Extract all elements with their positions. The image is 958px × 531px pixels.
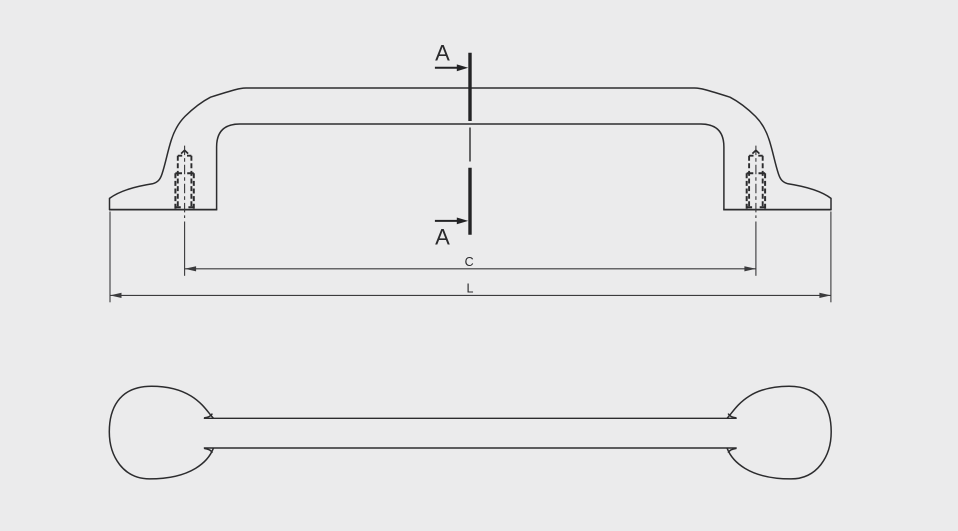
L extension line left xyxy=(109,212,111,303)
svg-text:A: A xyxy=(435,41,450,66)
screw thread hole hidden lines xyxy=(747,173,765,208)
svg-text:A: A xyxy=(435,224,450,249)
handle outer profile right xyxy=(695,88,832,210)
svg-text:C: C xyxy=(465,255,474,269)
baseline right foot xyxy=(723,209,831,211)
baseline left foot xyxy=(109,209,217,211)
screw centerline xyxy=(755,146,757,218)
section arrow bottom xyxy=(435,220,460,222)
top view bar bottom edge xyxy=(204,447,737,449)
screw drill point xyxy=(181,150,188,153)
svg-text:L: L xyxy=(467,282,474,296)
screw centerline xyxy=(184,146,186,218)
handle outer profile left xyxy=(110,88,695,210)
L extension line right xyxy=(830,212,832,303)
section line A-A thick top xyxy=(468,53,471,121)
screw drill point xyxy=(752,150,759,153)
dimension line L xyxy=(110,294,831,296)
screw pilot hole hidden lines xyxy=(178,156,192,209)
dimension line C xyxy=(185,268,756,270)
top view left pad xyxy=(109,386,213,479)
top view bar top edge xyxy=(204,417,737,419)
handle inner profile xyxy=(217,124,724,210)
section line A-A thick bottom xyxy=(468,168,471,235)
screw thread hole hidden lines xyxy=(175,173,193,208)
section line centerline dash xyxy=(469,128,471,162)
screw pilot hole hidden lines xyxy=(749,156,763,209)
top view right pad xyxy=(727,386,831,479)
section arrow top xyxy=(435,67,460,69)
